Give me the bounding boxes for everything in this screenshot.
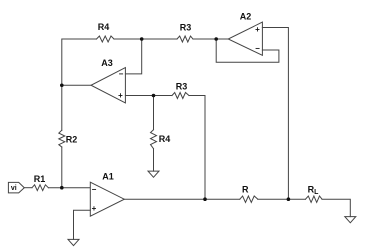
- svg-text:R3: R3: [180, 23, 192, 33]
- svg-text:R2: R2: [66, 135, 78, 145]
- wire A3 non-inverting input to node: [125, 95, 172, 97]
- op-amp A2 (points left): [228, 22, 262, 55]
- resistor RL: [306, 196, 323, 202]
- resistor R3 (middle): [172, 93, 189, 99]
- resistor R4 (top): [97, 36, 115, 42]
- junction node bottom right: [287, 197, 291, 201]
- resistor R1: [32, 185, 48, 191]
- wire R3 to A2 output: [193, 38, 228, 40]
- wire R4 to R3: [114, 38, 177, 40]
- resistor R2: [59, 130, 65, 147]
- ground (right, below RL net): [345, 217, 356, 223]
- svg-text:+: +: [92, 204, 97, 213]
- wire top-left corner: left rail to R4: [62, 39, 97, 130]
- svg-text:R1: R1: [34, 174, 46, 184]
- wire left rail lower part: [61, 147, 63, 188]
- junction node A2 output: [214, 37, 218, 41]
- wire vi to R1: [24, 187, 32, 189]
- wire R1 to A1 inverting input: [48, 187, 90, 189]
- svg-text:A3: A3: [101, 58, 113, 68]
- wire A1 non-inverting input to ground: [74, 210, 91, 239]
- wire A3 inverting input up to top net: [125, 39, 141, 74]
- wire R to RL: [258, 198, 306, 200]
- junction node A3 plus / R3 / R4: [152, 94, 156, 98]
- input source vi: [8, 182, 24, 193]
- wire RL to ground: [322, 199, 350, 216]
- svg-text:−: −: [119, 70, 124, 79]
- wire A2 feedback loop output to inverting input: [216, 39, 279, 62]
- junction node R1 / rail / A1 minus: [60, 186, 64, 190]
- svg-text:RL: RL: [308, 185, 320, 196]
- svg-text:vi: vi: [11, 185, 17, 192]
- svg-text:−: −: [92, 185, 97, 194]
- svg-text:R4: R4: [159, 134, 171, 144]
- resistor R: [240, 196, 258, 202]
- svg-text:R: R: [242, 185, 249, 195]
- ground (below R4 vertical): [148, 171, 159, 177]
- svg-text:+: +: [118, 91, 123, 100]
- svg-text:A1: A1: [102, 171, 114, 181]
- svg-text:R3: R3: [176, 82, 188, 92]
- svg-text:−: −: [255, 44, 260, 53]
- wire A2 non-inverting input to right rail: [262, 28, 288, 200]
- svg-text:R4: R4: [98, 22, 110, 32]
- resistor R4 (vertical): [151, 130, 157, 149]
- resistor R3 (top): [177, 36, 193, 42]
- wire node to R4 vertical: [153, 96, 155, 130]
- wire R3 middle to down rail: [189, 96, 205, 200]
- wire R4 vertical to ground: [153, 149, 155, 171]
- svg-text:+: +: [255, 25, 260, 34]
- junction node bottom left: [203, 197, 207, 201]
- op-amp A3 (points left): [91, 68, 125, 103]
- svg-text:A2: A2: [240, 12, 252, 22]
- wire A3 output to left rail: [62, 84, 91, 86]
- junction node R4/R3 top: [140, 37, 144, 41]
- ground (below A1): [68, 239, 79, 245]
- wire A1 output to R: [124, 198, 240, 200]
- junction node A3 output on left rail: [60, 83, 64, 87]
- op-amp A1 (points right): [90, 182, 124, 216]
